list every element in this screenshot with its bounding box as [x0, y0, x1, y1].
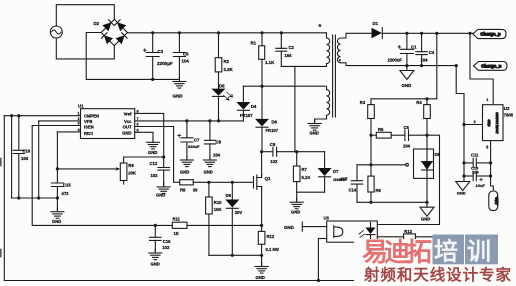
svg-text:培: 培	[434, 238, 458, 266]
optocoupler U3 box	[327, 221, 378, 242]
svg-text:102: 102	[162, 245, 170, 250]
wire D4 top lead	[242, 86, 244, 102]
svg-text:3: 3	[78, 122, 80, 126]
wire U1 pin2 VFB	[39, 120, 81, 122]
junction bus C10	[17, 196, 20, 199]
capacitor C16 plates	[150, 237, 161, 240]
bridge diode top-left	[102, 22, 111, 31]
wire R4 top lead	[426, 99, 428, 105]
svg-text:D8: D8	[435, 152, 441, 157]
svg-text:U1: U1	[78, 103, 84, 108]
optocoupler U3 transistor	[334, 226, 343, 238]
svg-text:Q1: Q1	[265, 176, 271, 181]
wire D6 to drain node	[261, 127, 263, 152]
wire R2 top lead	[218, 33, 220, 58]
junction C4 top	[420, 32, 423, 35]
wire R7 bottom lead	[296, 182, 298, 193]
wire D4 to Vcc rail	[242, 110, 244, 121]
wire R1 bottom lead	[261, 59, 263, 86]
junction C1 top	[405, 32, 408, 35]
junction R2 top	[217, 31, 220, 34]
svg-text:R5: R5	[378, 127, 384, 132]
left edge scan artifact 1	[0, 159, 2, 166]
resistor R6 body	[368, 176, 374, 192]
svg-text:CMPEN: CMPEN	[84, 113, 99, 118]
svg-text:FR107: FR107	[240, 113, 253, 118]
wire R3R4 top rail	[371, 98, 437, 100]
wire C2 top lead	[280, 33, 282, 49]
wire U2 output col lower	[491, 176, 494, 191]
svg-text:2: 2	[78, 117, 80, 121]
svg-text:Charge_n: Charge_n	[481, 64, 502, 69]
svg-text:2200µF: 2200µF	[157, 61, 173, 66]
svg-text:C1: C1	[411, 44, 417, 49]
wire R10 bottom lead	[208, 214, 210, 255]
LED D5	[212, 89, 226, 97]
transistor Q1 MOSFET	[254, 174, 262, 190]
wire secondary bottom pin	[341, 63, 457, 66]
svg-text:R13: R13	[404, 229, 412, 234]
wire C16 bottom lead	[154, 240, 156, 251]
resistor R3 body	[368, 105, 375, 119]
svg-text:C16: C16	[163, 239, 171, 244]
junction col2 top	[10, 114, 13, 117]
wire TL431 ref	[357, 164, 406, 166]
capacitor C11 plates	[473, 158, 476, 167]
wire C7 top lead	[186, 121, 188, 138]
junction C11 right	[489, 161, 492, 164]
svg-text:20K: 20K	[128, 171, 136, 176]
wire primary top pin	[325, 33, 327, 38]
phase dot secondary	[339, 59, 341, 61]
diode D1	[372, 28, 383, 39]
svg-text:训: 训	[467, 239, 491, 266]
wire reg feed col	[470, 33, 493, 104]
resistor R5 body	[376, 132, 391, 138]
resistor R13 body	[404, 234, 416, 240]
wire col pin1 to bottom rail	[3, 116, 5, 281]
bridge rectifier D2 outline	[101, 19, 127, 45]
svg-text:D7: D7	[333, 169, 339, 174]
wire R12 bottom lead	[261, 244, 263, 255]
svg-text:GND: GND	[256, 275, 265, 280]
shunt regulator D8 TL431 box	[414, 149, 434, 178]
svg-text:C4: C4	[429, 50, 435, 55]
wire Vcc rail	[135, 120, 244, 122]
svg-text:R12: R12	[267, 234, 275, 239]
watermark white backing	[354, 239, 516, 286]
wire C4 top lead	[421, 33, 423, 51]
wire C12 top lead	[163, 157, 165, 168]
wire R3 top lead	[370, 99, 372, 105]
left edge scan artifact 2	[0, 250, 2, 257]
wire col pin1 to gnd bus	[11, 116, 13, 198]
connector Charge_n	[474, 62, 508, 71]
svg-text:2.2K: 2.2K	[224, 67, 234, 72]
wire U1 pin4 RtCt	[57, 131, 80, 133]
ground under C7	[180, 156, 193, 167]
shunt regulator D8 symbol	[406, 149, 433, 178]
junction C13 left	[462, 174, 465, 177]
capacitor C14 plates	[351, 181, 362, 184]
junction D9 top	[231, 181, 234, 184]
junction C13 right	[489, 174, 492, 177]
svg-text:GND: GND	[421, 217, 430, 222]
bridge diode bottom-right	[116, 35, 125, 44]
junction C2 top	[280, 31, 283, 34]
svg-text:Charge_p: Charge_p	[480, 32, 501, 37]
net label GND bar	[301, 222, 303, 231]
wire R12 to ground	[261, 255, 263, 264]
wire C11 left lead	[464, 162, 472, 164]
resistor R12 body	[258, 231, 265, 244]
svg-text:GND: GND	[402, 83, 412, 88]
svg-text:GND: GND	[204, 170, 213, 175]
svg-text:D9: D9	[226, 193, 232, 198]
svg-text:R1: R1	[251, 41, 257, 46]
wire opto cathode to R13	[377, 236, 403, 238]
svg-text:R2: R2	[224, 59, 230, 64]
svg-text:GND: GND	[291, 210, 300, 215]
svg-text:39: 39	[193, 187, 198, 192]
svg-text:R7: R7	[302, 167, 308, 172]
resistor R11 body	[172, 222, 187, 228]
wire R13 right lead	[416, 236, 448, 238]
svg-text:射频和天线设计专家: 射频和天线设计专家	[363, 265, 511, 284]
svg-text:104: 104	[213, 153, 221, 158]
wire C11 right lead	[477, 162, 491, 164]
svg-text:20V: 20V	[235, 210, 243, 215]
wire D5 to Vcc rail	[218, 97, 220, 121]
wire R9 bottom stub	[123, 181, 125, 185]
bridge diode bottom-left	[104, 35, 113, 44]
junction R1 bottom aux node	[260, 85, 263, 88]
svg-text:C7: C7	[194, 138, 200, 143]
wire C3 bottom lead	[152, 57, 154, 80]
wire DC+ top rail	[127, 32, 325, 34]
svg-text:OUT: OUT	[123, 125, 132, 130]
wire C4 bottom lead	[421, 55, 423, 66]
junction bus RtCt	[56, 196, 59, 199]
wire R9 top lead	[123, 157, 125, 163]
wire secondary top pin	[341, 33, 372, 38]
wire snubber top rail	[262, 151, 272, 153]
wire C1 bottom lead	[406, 54, 408, 66]
svg-text:U2: U2	[504, 106, 510, 111]
wire R3 col mid	[370, 119, 372, 177]
svg-text:4N7: 4N7	[340, 176, 348, 181]
wire R1 top lead	[261, 33, 263, 46]
wire AC top to bridge top	[56, 5, 114, 26]
svg-text:C6: C6	[404, 125, 410, 130]
resistor R4 body	[424, 105, 431, 119]
diode D6 FR107	[255, 119, 269, 127]
wire C14 col	[356, 165, 358, 181]
wire aux node horizontal	[243, 85, 325, 87]
wire D7 bottom lead	[324, 177, 326, 192]
resistor R1 body	[259, 46, 265, 60]
svg-text:Vcc: Vcc	[124, 119, 132, 124]
svg-text:104: 104	[421, 58, 429, 63]
svg-text:GND: GND	[457, 190, 466, 195]
svg-text:FR107: FR107	[266, 128, 279, 133]
wire R5 left lead	[371, 134, 376, 136]
capacitor C5 plates	[173, 53, 185, 57]
junction C10 top	[17, 114, 20, 117]
svg-text:GND: GND	[173, 94, 184, 99]
wire C13 left lead	[464, 175, 472, 177]
svg-text:104: 104	[21, 156, 29, 161]
junction TL431 bottom	[425, 201, 428, 204]
svg-text:R4: R4	[416, 100, 422, 105]
svg-text:C8: C8	[216, 140, 222, 145]
junction R6 bottom	[369, 201, 372, 204]
junction U2 input col	[462, 123, 465, 126]
wire opto pin3 col	[317, 239, 319, 281]
optocoupler U3 LED	[359, 223, 376, 241]
wire C7 bottom lead	[186, 142, 188, 158]
svg-text:104: 104	[182, 59, 190, 64]
svg-text:C9: C9	[270, 142, 276, 147]
ground under R12	[255, 263, 268, 274]
svg-text:102: 102	[270, 159, 278, 164]
svg-text:D1: D1	[373, 21, 379, 26]
svg-text:R11: R11	[173, 216, 181, 221]
wire bottom ground rail	[4, 280, 440, 282]
svg-text:R6: R6	[376, 188, 382, 193]
svg-text:R10: R10	[214, 200, 222, 205]
wire opto pin4 to GND marker	[302, 226, 326, 228]
wire sense to source	[187, 224, 262, 226]
wire snubber bottom rail	[297, 191, 325, 193]
svg-text:10K: 10K	[214, 207, 222, 212]
svg-text:D5: D5	[219, 84, 225, 89]
svg-text:D4: D4	[251, 104, 257, 109]
transformer primary winding	[327, 38, 330, 64]
wire ISEN column to sense wire	[32, 126, 172, 226]
resistor R8 body	[180, 180, 194, 185]
wire U2 pin2 input	[464, 124, 483, 126]
svg-text:D6: D6	[271, 119, 277, 124]
LED D5 arrows	[224, 93, 233, 101]
junction C5 top	[178, 31, 181, 34]
svg-text:C3: C3	[158, 49, 164, 54]
wire C3 top lead	[152, 33, 154, 53]
wire C5 bottom lead	[178, 57, 180, 80]
junction R3R4 feed	[435, 32, 438, 35]
junction C3 bottom	[151, 78, 154, 81]
op-amp U1 box	[81, 109, 135, 139]
svg-text:C10: C10	[23, 148, 31, 153]
wire U1 pin6 OUT	[135, 127, 174, 183]
svg-text:2: 2	[474, 119, 477, 124]
wire D7 top lead	[324, 152, 326, 168]
svg-text:1: 1	[486, 97, 489, 102]
svg-text:GND: GND	[122, 131, 131, 136]
svg-text:6: 6	[137, 123, 139, 127]
svg-text:7805: 7805	[504, 113, 514, 118]
ground under C5	[173, 78, 186, 89]
capacitor C13 plates	[473, 171, 476, 180]
wire U1 pin8 Vref	[135, 113, 164, 157]
svg-text:104: 104	[403, 144, 411, 149]
svg-text:GND: GND	[487, 120, 491, 128]
transformer aux winding	[327, 90, 330, 116]
wire divider bottom rail	[357, 201, 427, 203]
junction C11 left	[462, 161, 465, 164]
wire U1 pin5 GND	[135, 132, 153, 140]
svg-text:5.1K: 5.1K	[302, 175, 311, 180]
potentiometer R9 body	[120, 163, 127, 181]
junction R10 top	[207, 181, 210, 184]
wire U2 output col	[490, 141, 492, 176]
svg-text:3: 3	[486, 145, 489, 150]
wire C6 to opto col	[409, 135, 440, 224]
wire C15 bottom	[56, 187, 58, 210]
wire C16 top lead	[154, 225, 156, 237]
svg-text:103: 103	[151, 173, 159, 178]
wire aux top pin	[326, 86, 328, 89]
ground under R7	[290, 198, 303, 209]
wire VFB column	[38, 121, 40, 198]
wire opto anode	[377, 224, 439, 226]
junction source sense	[260, 224, 263, 227]
wire C2 bottom lead	[280, 51, 282, 66]
resistor R7 body	[293, 166, 300, 182]
watermark blue block 1	[433, 235, 465, 265]
label 10uF plus	[480, 178, 483, 181]
transformer core	[333, 35, 336, 117]
wire R10 top lead	[208, 182, 210, 197]
svg-text:C11: C11	[471, 152, 479, 157]
wire TL431 cathode down	[426, 178, 428, 207]
svg-text:OUTPUT INPUT: OUTPUT INPUT	[495, 112, 499, 134]
wire aux bottom pin	[315, 115, 327, 121]
connector Charge_p	[473, 29, 506, 38]
svg-text:C14: C14	[349, 188, 357, 193]
wire C13 right lead	[477, 175, 491, 177]
ground U1 pin5	[147, 138, 160, 149]
junction R7 top	[295, 150, 298, 153]
wire U1 pin1 COMP	[4, 115, 80, 117]
svg-text:GND: GND	[310, 131, 319, 136]
wire R5 to C6	[391, 134, 405, 136]
junction bus VFB	[37, 196, 40, 199]
ground output triangle	[456, 182, 470, 191]
svg-text:GND: GND	[284, 225, 294, 230]
wire Q1 drain column	[261, 152, 263, 178]
junction C8 top	[208, 119, 211, 122]
svg-text:C15: C15	[63, 182, 71, 187]
wire opto pin3 to bottom rail	[318, 238, 326, 240]
junction ref tap	[369, 163, 372, 166]
capacitor C12 plates	[158, 168, 169, 171]
svg-text:GND: GND	[148, 150, 157, 155]
wire C12 bottom lead	[163, 170, 165, 185]
watermark blue block 2	[465, 235, 498, 265]
capacitor C9 plates	[273, 147, 277, 156]
svg-text:C2: C2	[289, 45, 295, 50]
svg-text:GND: GND	[156, 193, 165, 198]
connector +5V	[489, 191, 499, 211]
junction reg feed	[468, 32, 471, 35]
wire R9 wiper with arrow	[57, 167, 120, 171]
junction C4 bottom rail	[420, 64, 423, 67]
wire primary bottom pin	[281, 64, 326, 67]
wire Q1 source column	[261, 187, 263, 232]
wire primary bottom column	[294, 66, 296, 151]
wire col to R3R4 rail	[436, 33, 438, 99]
wire snubber gnd lead	[296, 192, 298, 200]
zener D9 20V	[225, 200, 239, 209]
bridge diode top-right	[117, 22, 126, 31]
capacitor C2 plates	[276, 48, 287, 51]
resistor R2 body	[215, 58, 222, 72]
capacitor C1 plates	[398, 46, 414, 54]
wire C10 column upper	[18, 116, 20, 151]
svg-text:C12: C12	[150, 161, 158, 166]
junction R1 top	[260, 31, 263, 34]
wire D1 cathode to Charge_p	[382, 32, 473, 34]
svg-text:VFB: VFB	[84, 119, 92, 124]
junction D9 bottom	[231, 254, 234, 257]
capacitor C10 plates	[13, 150, 24, 153]
wire C5 top lead	[178, 33, 180, 53]
diode D4 FR107	[236, 102, 250, 110]
svg-text:易迪拓: 易迪拓	[362, 237, 432, 267]
svg-text:8: 8	[137, 110, 139, 114]
svg-text:0.1 5W: 0.1 5W	[266, 247, 279, 252]
junction R12 bottom	[260, 254, 263, 257]
svg-text:104: 104	[285, 53, 293, 58]
transformer secondary winding	[337, 38, 340, 63]
wire AC bottom to bridge bottom	[56, 38, 114, 59]
svg-text:*: *	[319, 24, 322, 31]
svg-text:C5: C5	[183, 52, 189, 57]
watermark logo line 1 red characters	[362, 235, 511, 285]
capacitor C4 plates	[416, 52, 427, 55]
junction Vref C12	[162, 155, 165, 158]
wire R6 bottom lead	[370, 192, 372, 202]
regulator U2 inner text	[487, 112, 499, 134]
wire R4 bottom lead	[426, 119, 428, 150]
svg-text:GND: GND	[151, 262, 160, 267]
capacitor C3 plates	[143, 49, 159, 57]
svg-text:ISEN: ISEN	[84, 124, 94, 129]
wire 7805 col	[456, 66, 464, 125]
wire D9 bottom lead	[231, 208, 233, 255]
junction opto col bottom	[317, 279, 320, 282]
junction R4 C6	[425, 134, 428, 137]
junction C16 top	[154, 224, 157, 227]
capacitor C8 plates	[204, 140, 215, 144]
wire U2 left col down	[463, 125, 465, 182]
junction drain snubber	[260, 150, 263, 153]
svg-text:R8: R8	[180, 187, 186, 192]
wire gate drive 2	[193, 181, 253, 183]
wire snubber top rail 2	[277, 151, 325, 153]
ground under C16	[149, 249, 162, 260]
ground TL431 triangle	[420, 207, 434, 216]
wire RtCt column	[56, 132, 58, 183]
svg-text:D2: D2	[94, 21, 100, 26]
wire gnd bus	[12, 197, 58, 199]
wire D9 top lead	[231, 182, 233, 199]
capacitor C7 plates	[178, 134, 193, 142]
svg-text:5: 5	[137, 128, 139, 132]
svg-text:R9: R9	[128, 163, 134, 168]
wire C1 top lead	[406, 33, 408, 49]
